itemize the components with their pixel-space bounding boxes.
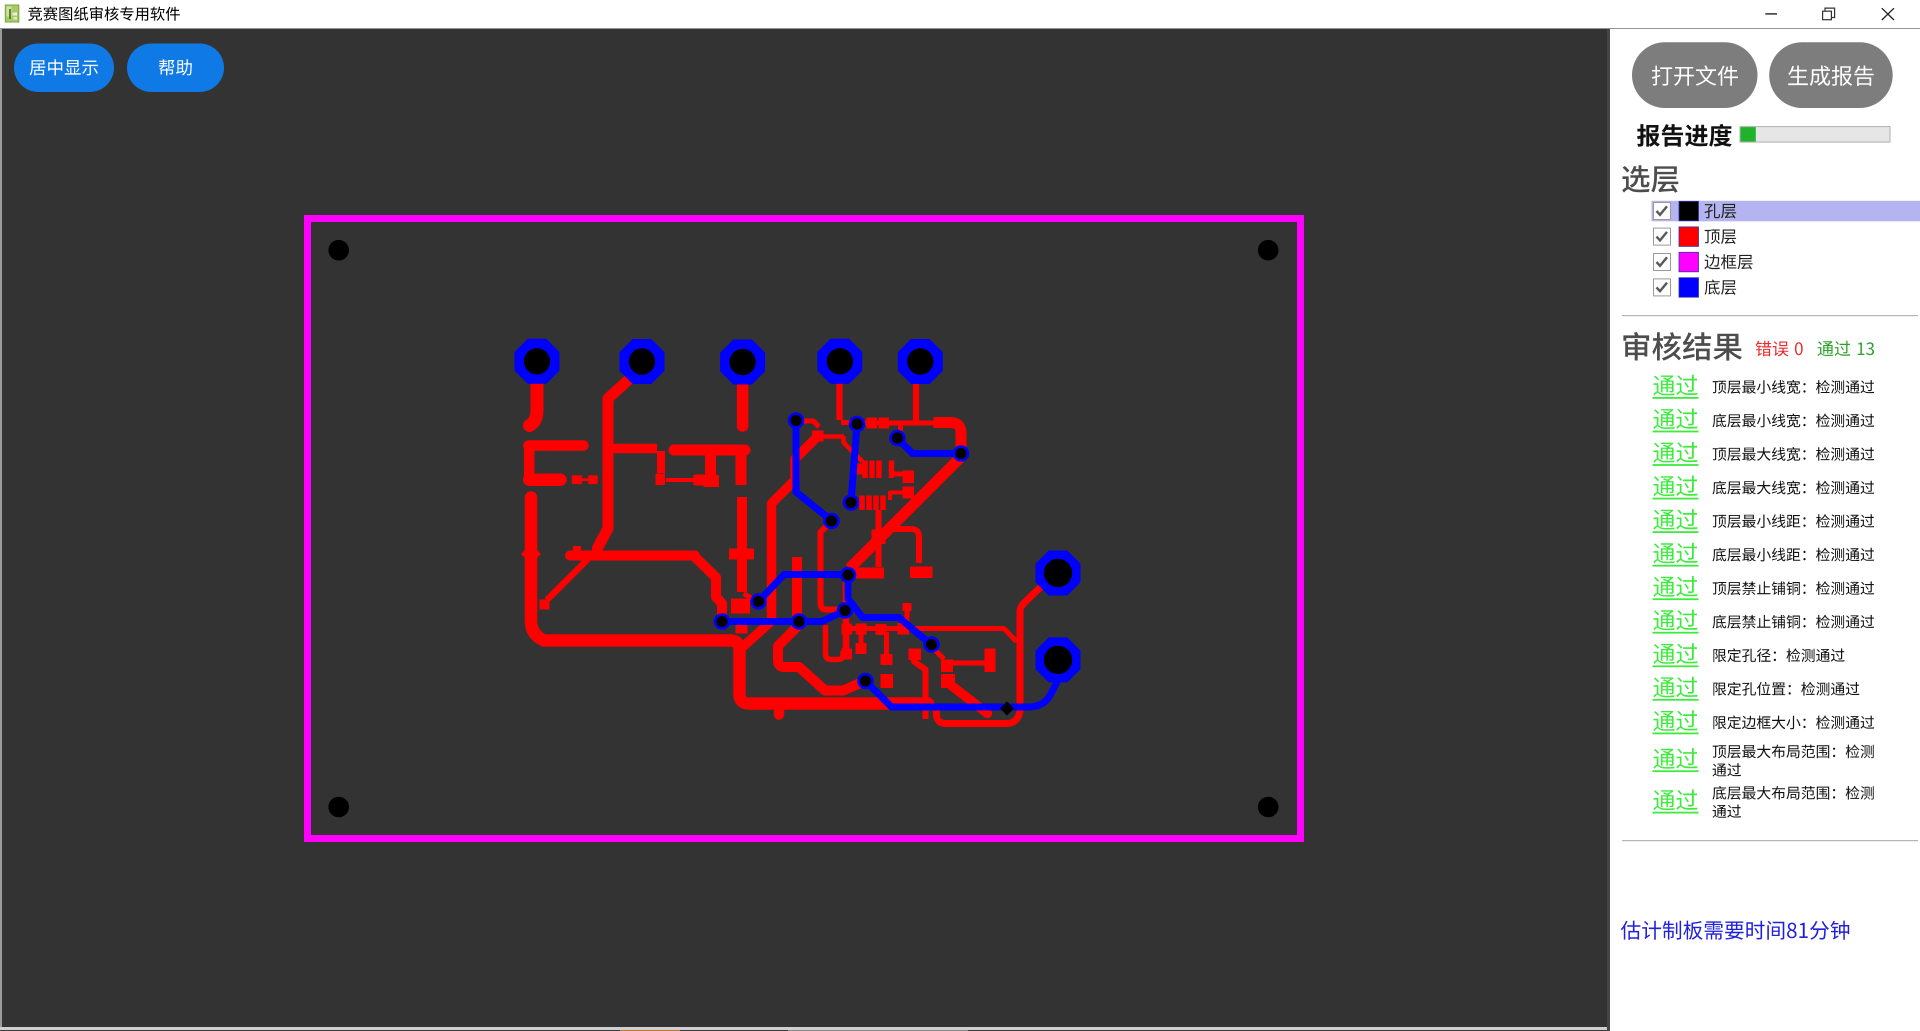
maximize-restore button	[1823, 8, 1835, 20]
label 通过 13	[1818, 341, 1874, 356]
wire pin 861	[859, 630, 864, 646]
taskbar sliver dark row	[0, 1030, 1607, 1031]
pad PA (octagon with hole)	[1036, 551, 1081, 596]
junction diamond J1	[521, 544, 541, 564]
bwire via897 to D3	[898, 439, 959, 454]
wire bar2 right leg	[736, 453, 747, 485]
wire D2 branch	[891, 529, 919, 563]
wire mid bar y448	[611, 444, 657, 454]
label 错误 0	[1756, 341, 1803, 357]
layer row 边框层	[1654, 252, 1753, 271]
wire riser 876	[876, 510, 882, 567]
wire thick diag 948	[952, 686, 988, 714]
pad R1-a	[572, 475, 582, 484]
result row 2: 通过 底层最小线宽：检测通过	[1653, 408, 1875, 432]
button 生成报告	[1769, 42, 1893, 108]
pad rowA-1	[842, 624, 853, 635]
result row 9: 通过 限定孔径：检测通过	[1653, 643, 1845, 667]
result row 12: 通过 顶层最大布局范围：检测通过	[1653, 745, 1874, 777]
progress bar track	[1740, 127, 1890, 143]
via V11	[840, 567, 857, 584]
pad rowB-1	[842, 649, 853, 660]
via V6	[843, 494, 860, 511]
wire pin 907 up	[905, 610, 910, 626]
pad P3 (octagon with hole)	[720, 340, 765, 385]
pad tall 989	[985, 649, 996, 673]
wire via1 branch	[799, 421, 819, 427]
pad big 922-573	[910, 567, 933, 579]
pad rowA-3	[876, 624, 887, 635]
pad rowB-3	[881, 654, 893, 665]
via V10	[750, 593, 767, 610]
result row 10: 通过 限定孔位置：检测通过	[1653, 677, 1860, 701]
result row 1: 通过 顶层最小线宽：检测通过	[1653, 375, 1875, 399]
wire R1 link	[582, 478, 590, 481]
wire via831-to-via845	[821, 523, 843, 610]
pad y423-b	[879, 418, 890, 429]
wire mid leg	[657, 451, 665, 473]
wire pad3 stub	[737, 382, 749, 426]
wire 909b link	[890, 493, 904, 501]
wire leg lower	[737, 497, 747, 592]
label 报告进度	[1637, 124, 1732, 147]
via V8	[791, 613, 808, 630]
wire via758 stub	[744, 594, 756, 601]
title bar	[0, 0, 1920, 29]
pad branch end	[540, 600, 550, 610]
left window border	[0, 29, 2, 1027]
right panel background	[1610, 29, 1920, 1031]
bwire via722 to via837	[722, 611, 845, 622]
pad y423-c	[934, 417, 945, 428]
pad on right leg	[729, 549, 754, 560]
close button	[1882, 8, 1894, 20]
wire drop to IC	[844, 436, 863, 462]
bwire via758 to via848	[759, 575, 848, 602]
wire IC elbow	[892, 472, 905, 477]
layer row 孔层	[1654, 201, 1737, 221]
header 审核结果	[1623, 332, 1742, 361]
wire link y436	[823, 434, 844, 439]
mounting hole H3	[328, 797, 349, 818]
wire pad4 to via2	[841, 420, 855, 425]
wire C-shape bottom bar	[529, 473, 560, 486]
wire C-shape left bar	[524, 446, 535, 480]
header 选层	[1622, 165, 1678, 193]
wire long diagonal D1	[743, 435, 820, 647]
pad IC left	[853, 464, 863, 475]
wire pin 846	[844, 630, 849, 652]
panel divider border	[1607, 29, 1610, 1031]
pad riser 876	[872, 530, 886, 545]
wire corner to via D3	[942, 423, 961, 453]
wire branch 826 low	[826, 625, 844, 660]
via V3	[889, 430, 906, 447]
divider line 2	[1622, 840, 1918, 841]
via V4	[953, 445, 970, 462]
label 估计制板需要时间	[1621, 921, 1849, 940]
via V7	[714, 613, 731, 630]
pad y423-a	[867, 418, 878, 429]
pad rowA-4	[898, 623, 910, 635]
button 打开文件	[1632, 42, 1758, 108]
progress bar green chunk	[1741, 127, 1756, 142]
bwire via1 down	[796, 420, 832, 521]
wire R2 link	[666, 478, 694, 482]
wire pad5 stub	[913, 383, 919, 423]
pad rowB-2	[856, 643, 867, 654]
result row 6: 通过 底层最小线距：检测通过	[1653, 543, 1875, 567]
minimize button	[1765, 13, 1777, 15]
wire pad1 stub	[530, 383, 538, 426]
pad P5 (octagon with hole)	[898, 339, 943, 384]
result row 7: 通过 顶层禁止铺铜：检测通过	[1653, 576, 1875, 600]
taskbar sliver light line	[0, 1027, 1607, 1030]
wire via932 link	[933, 648, 944, 659]
pad 909b	[903, 487, 915, 499]
wire mid bar y555	[570, 551, 695, 561]
pad 886b	[881, 674, 894, 688]
layer row 底层	[1654, 278, 1737, 298]
pad via1 branch	[812, 431, 824, 442]
pad 917	[909, 649, 922, 661]
pad pin907 tip	[903, 603, 912, 611]
wire stub below bus	[774, 704, 785, 715]
wire bottom-right loop to pad A	[928, 578, 1051, 724]
wire via B3 feed	[898, 425, 903, 433]
bwire via865 to pad B	[866, 681, 1058, 707]
via V5	[823, 513, 840, 530]
via V2	[849, 416, 866, 433]
via V9	[837, 602, 854, 619]
result row 13: 通过 底层最大布局范围：检测通过	[1653, 786, 1874, 818]
pad 948b	[941, 674, 955, 688]
app icon	[5, 5, 19, 23]
wire bar2	[674, 445, 745, 456]
bwire via848 to via932	[848, 576, 931, 645]
wire bus y629	[846, 629, 1017, 642]
divider line 1	[1622, 315, 1918, 316]
wire pin 886	[884, 632, 889, 655]
layer row 顶层	[1654, 227, 1737, 247]
result row 8: 通过 底层禁止铺铜：检测通过	[1653, 610, 1875, 634]
button 帮助	[127, 44, 224, 93]
wire pad2 trace	[598, 373, 637, 553]
IC U1 pin row 1	[862, 461, 868, 479]
mounting hole H4	[1258, 797, 1279, 818]
wire pin col 846	[843, 578, 850, 650]
pad below 740	[736, 623, 748, 634]
window title text	[28, 7, 180, 21]
board outline frame (edge layer)	[308, 219, 1301, 839]
wire bar555 stub	[573, 546, 581, 552]
bwire via2 down	[851, 424, 857, 502]
pad P2 (octagon with hole)	[620, 339, 665, 384]
via V1	[788, 412, 805, 429]
pad bar2 mid leg tip	[704, 475, 720, 487]
junction diamond J2 on blue	[1000, 702, 1014, 716]
pad 948a	[941, 660, 953, 673]
mounting hole H2	[1258, 240, 1279, 261]
result row 5: 通过 顶层最小线距：检测通过	[1653, 509, 1875, 533]
wire bar2 mid leg	[705, 452, 716, 475]
wire y662	[950, 661, 985, 666]
pad R2-b	[694, 475, 704, 486]
wire branch diag to pad	[547, 559, 588, 600]
taskbar orange segment	[620, 1030, 680, 1031]
mounting hole H1	[328, 240, 349, 261]
wire bar y423	[860, 421, 937, 426]
wire pad4 stub	[836, 383, 842, 420]
wire C-shape top bar	[529, 440, 584, 451]
title separator line	[0, 28, 1920, 30]
pad P4 (octagon with hole)	[817, 339, 862, 384]
wire main thick bus	[531, 498, 928, 704]
wire bar555 descent to via	[694, 556, 722, 619]
pad P1 (octagon with hole)	[515, 339, 560, 384]
pad mid leg tip	[656, 474, 666, 486]
result row 11: 通过 限定边框大小：检测通过	[1653, 710, 1875, 734]
layer row highlight 孔层	[1652, 201, 1920, 222]
wire corner 917	[914, 656, 926, 719]
pad rowA-2	[856, 624, 867, 635]
IC U1 pin row 2	[859, 496, 865, 511]
taskbar gray segment	[788, 1030, 968, 1031]
pad bar 866-572	[849, 568, 884, 579]
pad R1-b	[588, 475, 598, 484]
result row 4: 通过 底层最大线宽：检测通过	[1653, 476, 1875, 500]
wire long diagonal D2	[850, 458, 961, 569]
via V13	[857, 673, 874, 690]
via V12	[923, 636, 940, 653]
result row 3: 通过 顶层最大线宽：检测通过	[1653, 442, 1875, 466]
button 居中显示	[14, 44, 114, 93]
wire via799 riser	[778, 557, 865, 691]
pad PB (octagon with hole)	[1036, 637, 1081, 682]
pad right leg bottom	[731, 599, 750, 614]
pad 909a	[903, 471, 915, 484]
